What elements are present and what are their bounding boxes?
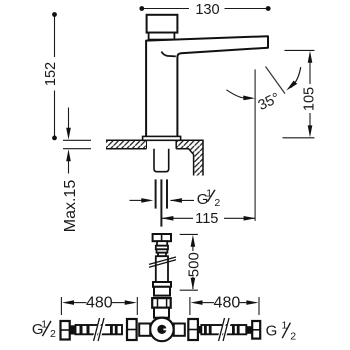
- svg-text:2: 2: [214, 197, 220, 209]
- countertop right section with apron (hatched): [176, 140, 203, 175]
- right hose: bands: [204, 325, 240, 334]
- dimension 105: [283, 50, 315, 137]
- 35 degree annotation: vertical reference line: [254, 69, 256, 221]
- left hose: bands: [80, 325, 118, 334]
- svg-text:2: 2: [50, 328, 56, 340]
- dimension 130: [143, 8, 267, 10]
- faucet knob cap: [147, 15, 178, 33]
- vertical hose: top hex nut: [153, 234, 171, 296]
- faucet knob neck: [149, 33, 175, 40]
- 35 degree annotation: tilted lever line: [266, 67, 286, 94]
- vertical hose: lower block: [154, 287, 170, 296]
- faucet base plate: [143, 136, 181, 140]
- supply pipe line left: [155, 179, 157, 208]
- dimension 480 right: [190, 297, 259, 315]
- right hose: ferrule: [247, 326, 253, 334]
- svg-text:480: 480: [214, 295, 241, 312]
- vertical hose: main tube: [156, 256, 168, 282]
- tee left arm block: [139, 324, 150, 336]
- vertical hose: upper tube segments: [156, 246, 168, 250]
- svg-text:130: 130: [195, 2, 219, 18]
- vertical hose: lower collar: [153, 282, 171, 287]
- tee valve inner dot: [157, 325, 166, 334]
- dimension Max.15: [63, 108, 91, 174]
- dimension 500: [180, 234, 198, 290]
- left hose: break marks: [95, 322, 105, 337]
- tee neck: [154, 308, 169, 318]
- right hose: break marks: [220, 322, 230, 337]
- left hose: ferrule: [70, 325, 76, 334]
- supply pipe centre line: [160, 179, 162, 226]
- threaded stub under counter: [154, 149, 169, 172]
- right hose: tee-side nut: [188, 319, 198, 340]
- left hose: tube: [76, 325, 123, 334]
- dimension G1/2 top: [130, 199, 195, 201]
- svg-text:480: 480: [86, 295, 113, 312]
- tee top hex nut: [152, 298, 171, 308]
- svg-text:1: 1: [206, 187, 212, 199]
- vertical hose: break marks: [149, 257, 176, 267]
- svg-text:105: 105: [302, 87, 318, 111]
- dimension 115: [162, 217, 255, 219]
- supply pipe line right: [166, 179, 168, 208]
- 35 degree annotation: right curved arrow: [291, 67, 301, 87]
- vertical hose: collar: [157, 241, 167, 246]
- countertop left section (hatched): [106, 140, 147, 148]
- svg-text:G: G: [266, 323, 278, 340]
- dimension 152: [54, 16, 56, 137]
- svg-text:2: 2: [290, 330, 296, 342]
- right hose: end nut G1/2: [252, 321, 260, 339]
- tee valve body circle: [150, 318, 174, 342]
- svg-text:500: 500: [185, 252, 202, 277]
- left hose: tee-side nut: [127, 319, 137, 340]
- faucet body and spout outline: [146, 36, 268, 136]
- svg-text:152: 152: [43, 62, 59, 86]
- 35 degree annotation: left curved arrow: [226, 90, 243, 98]
- right hose: olive: [198, 326, 201, 333]
- left hose: end nut G1/2: [61, 321, 70, 340]
- svg-text:Max.15: Max.15: [62, 180, 79, 233]
- svg-text:115: 115: [195, 211, 218, 227]
- faucet lever tip: [161, 52, 175, 57]
- dimension 480 left: [61, 297, 137, 315]
- right hose: tube: [201, 325, 246, 334]
- tee right arm block: [174, 324, 185, 336]
